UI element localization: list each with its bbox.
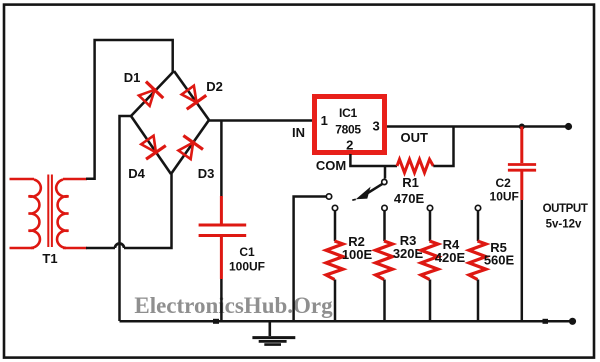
svg-text:7805: 7805 — [335, 123, 361, 137]
resistor R5 — [477, 211, 480, 241]
wire C1 to rail — [220, 279, 223, 321]
wire bridge left vertex to ground rail — [120, 116, 132, 321]
wire COM junction down to switch pivot — [384, 166, 387, 179]
wire junction down to C1 — [220, 121, 223, 198]
bridge edge D1 (top-left) — [131, 71, 174, 116]
diode D3 — [175, 136, 203, 162]
op-amp/regulator IC1 7805 box — [315, 97, 385, 153]
node tap R4 — [427, 205, 432, 210]
rail tick left — [213, 319, 219, 324]
wire IC pin3 OUT line to output terminal — [387, 125, 569, 128]
rail terminal dot — [569, 318, 576, 325]
wire transformer bottom to bridge bottom (with hop over vertical) — [86, 247, 115, 250]
diode D2 — [178, 83, 206, 109]
wire C2 to rail — [521, 200, 524, 321]
svg-text:C1: C1 — [239, 245, 255, 259]
svg-text:C2: C2 — [496, 176, 512, 190]
switch pivot circle — [382, 179, 387, 184]
svg-text:R1: R1 — [402, 175, 419, 190]
switch wiper arrow — [368, 184, 383, 193]
svg-text:320E: 320E — [393, 246, 424, 261]
wire IC pin2 COM — [350, 154, 385, 166]
svg-text:OUT: OUT — [400, 130, 428, 145]
svg-text:10UF: 10UF — [490, 190, 519, 204]
bridge edge D3 (bottom-right) — [171, 120, 209, 174]
svg-text:D2: D2 — [206, 79, 223, 94]
bridge edge D2 (top-right) — [174, 71, 209, 120]
svg-text:2: 2 — [346, 138, 353, 153]
capacitor C2 — [519, 124, 525, 130]
svg-text:D4: D4 — [128, 166, 145, 181]
transformer T1 — [10, 175, 88, 249]
resistor R4 — [429, 211, 432, 241]
capacitor C1 — [199, 196, 247, 279]
svg-text:3: 3 — [372, 119, 379, 134]
svg-text:D3: D3 — [198, 166, 215, 181]
svg-text:T1: T1 — [42, 251, 57, 266]
wire transformer top to bridge top — [86, 40, 173, 179]
switch position 1 tap and wire to rail — [326, 194, 331, 199]
svg-text:IC1: IC1 — [339, 106, 358, 120]
node tap R2 — [332, 205, 337, 210]
resistor R3 — [383, 211, 386, 241]
diode D4 — [138, 133, 166, 159]
svg-text:470E: 470E — [394, 191, 425, 206]
svg-text:D1: D1 — [124, 70, 141, 85]
node tap R3 — [382, 205, 387, 210]
svg-text:COM: COM — [316, 158, 346, 173]
node tap R5 — [475, 205, 480, 210]
resistor R1 — [385, 165, 397, 168]
svg-text:100E: 100E — [342, 247, 373, 262]
resistor R2 — [334, 211, 337, 241]
svg-text:100UF: 100UF — [229, 260, 265, 274]
rail tick right — [543, 319, 549, 324]
svg-text:420E: 420E — [435, 250, 466, 265]
svg-text:OUTPUT: OUTPUT — [543, 203, 588, 215]
svg-text:IN: IN — [292, 125, 305, 140]
svg-text:5v-12v: 5v-12v — [546, 219, 582, 231]
svg-text:1: 1 — [321, 113, 328, 128]
ground rail (bottom) — [120, 320, 573, 323]
ground — [252, 321, 295, 345]
svg-text:560E: 560E — [484, 253, 515, 268]
output terminal dot — [565, 123, 572, 130]
bridge edge D4 (bottom-left) — [131, 116, 171, 174]
diode D1 — [136, 82, 164, 109]
wire bridge right vertex to IC IN — [209, 119, 313, 122]
svg-text:ElectronicsHub.Org: ElectronicsHub.Org — [134, 293, 333, 318]
